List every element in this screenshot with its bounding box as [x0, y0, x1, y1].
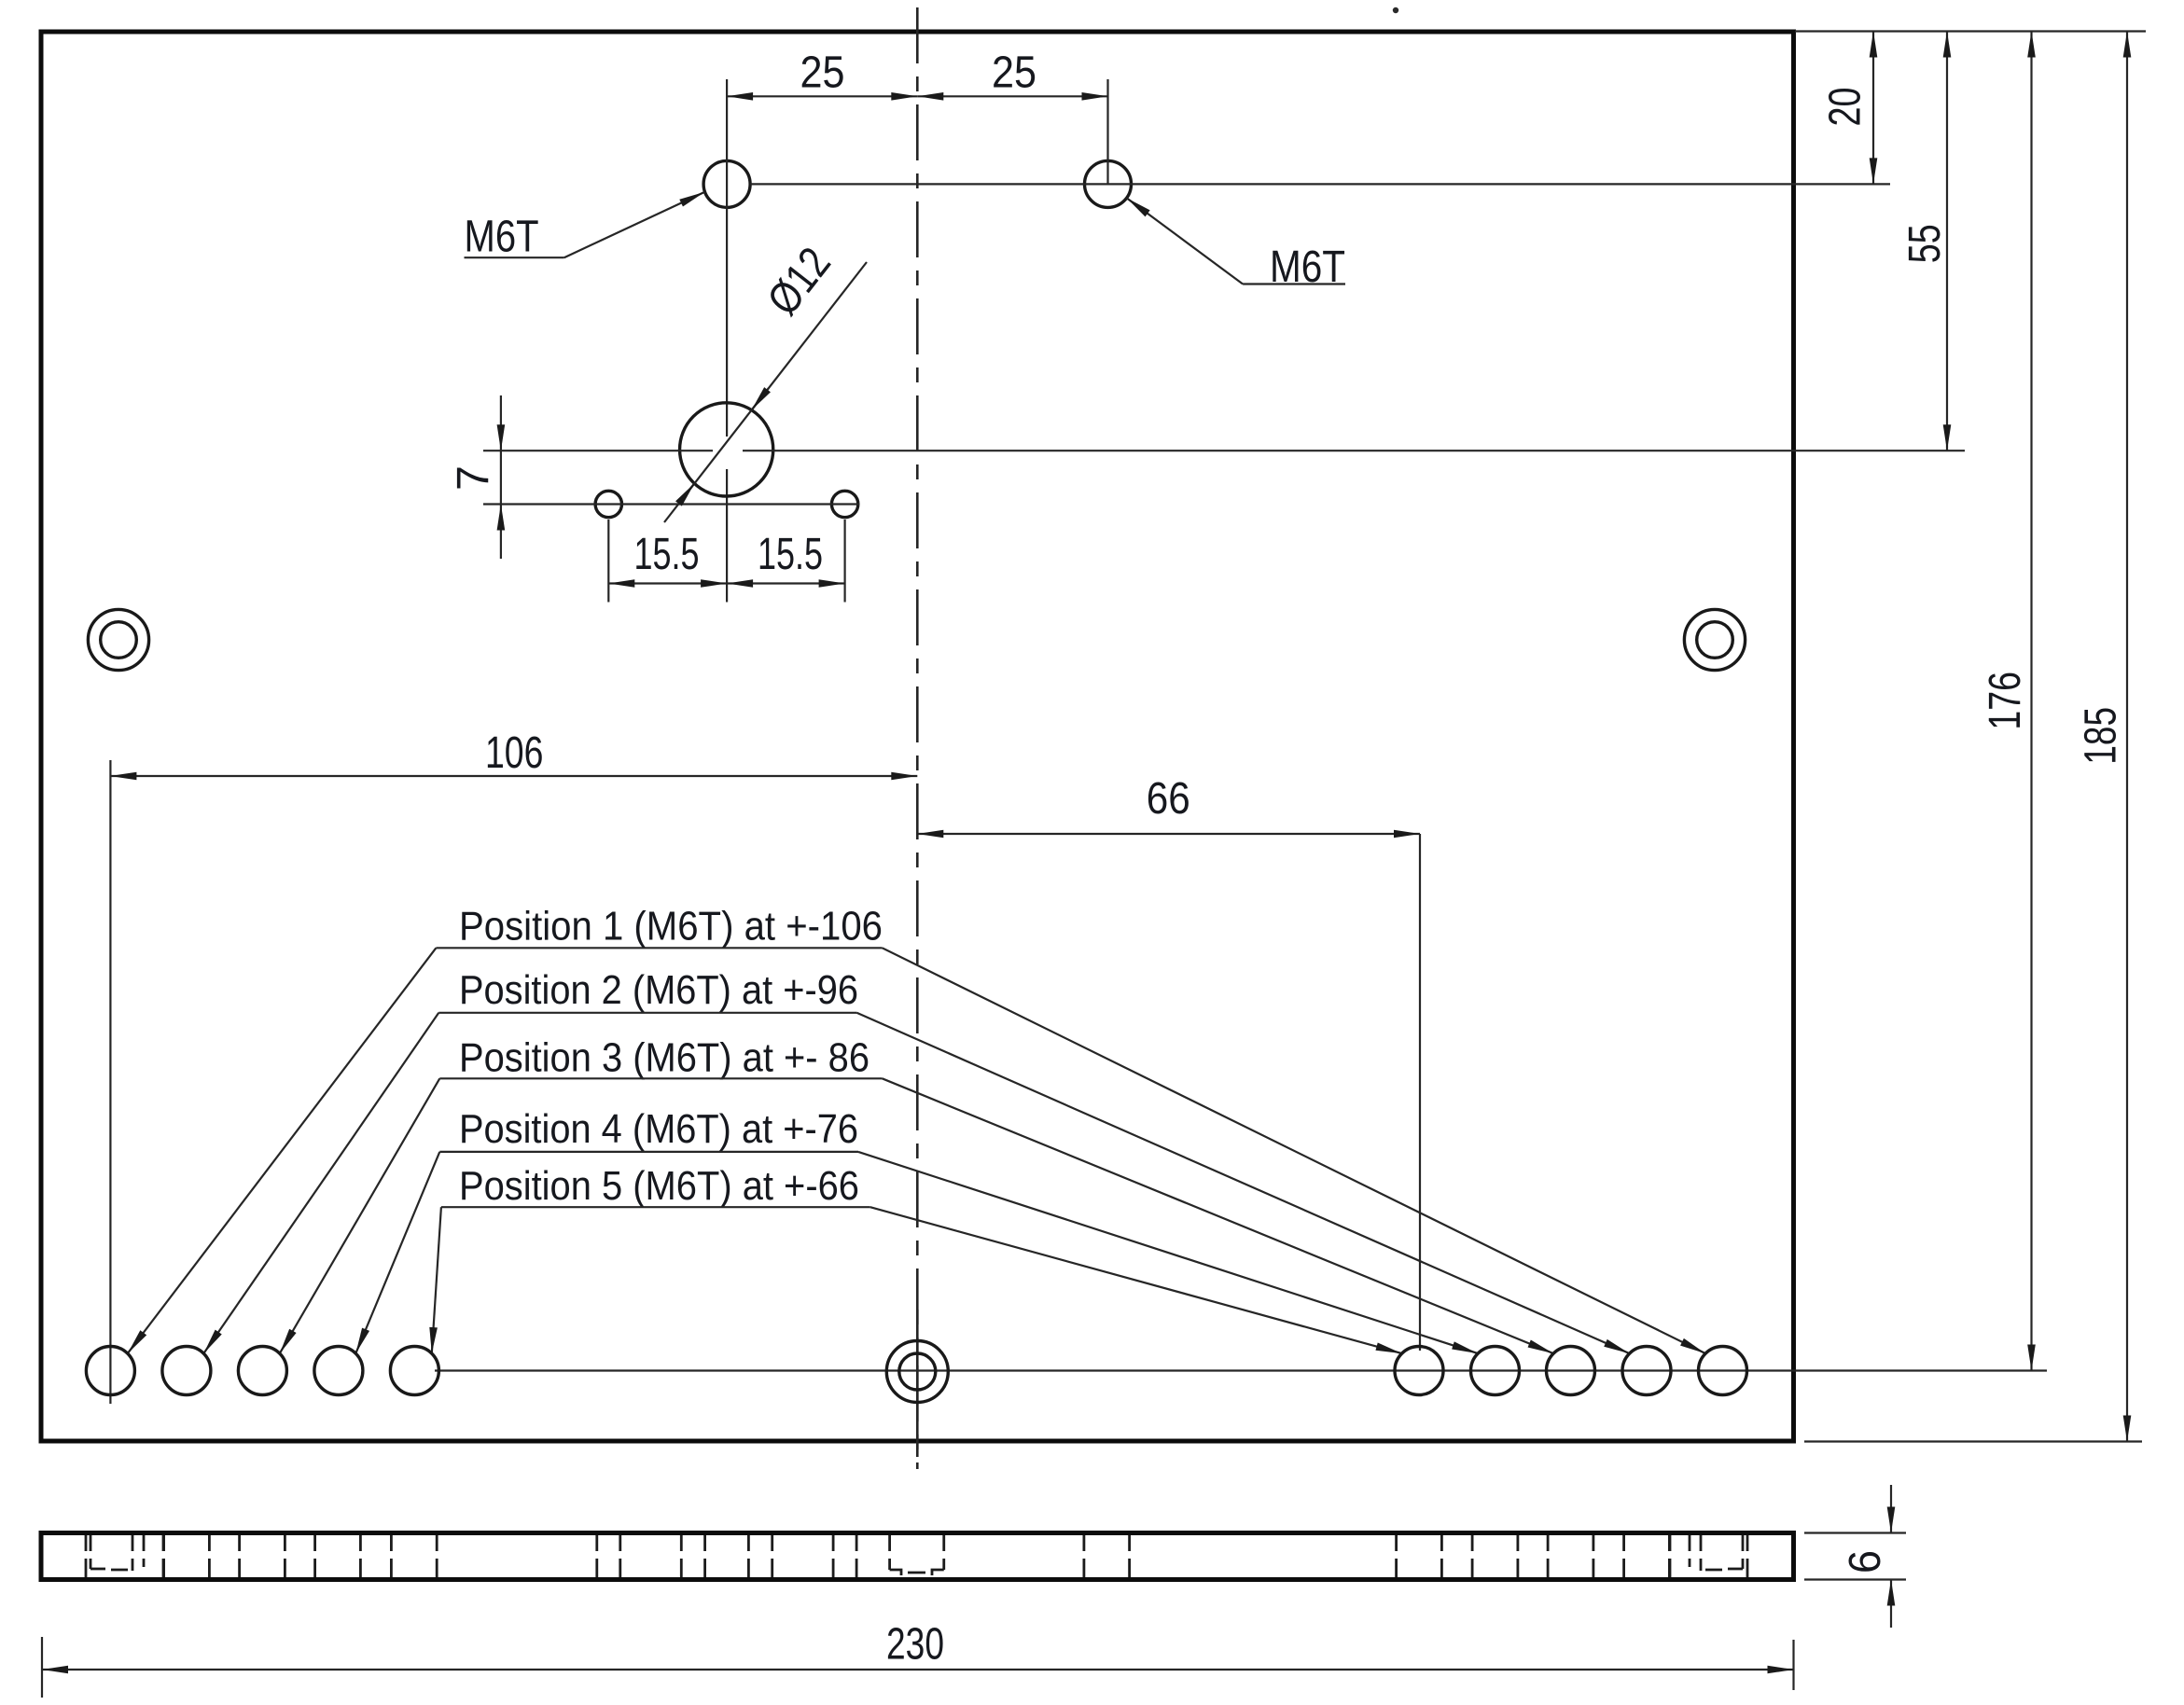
svg-text:25: 25 [800, 49, 845, 98]
svg-text:Position 4 (M6T) at +-76: Position 4 (M6T) at +-76 [459, 1106, 858, 1152]
svg-text:Position 1 (M6T) at +-106: Position 1 (M6T) at +-106 [459, 903, 883, 949]
svg-text:6: 6 [1841, 1550, 1890, 1573]
svg-text:Position 5 (M6T) at +-66: Position 5 (M6T) at +-66 [459, 1163, 859, 1209]
svg-text:66: 66 [1147, 774, 1190, 824]
svg-text:25: 25 [992, 49, 1036, 98]
svg-text:15.5: 15.5 [758, 530, 823, 579]
svg-text:185: 185 [2077, 707, 2126, 765]
svg-text:230: 230 [886, 1620, 944, 1670]
svg-text:Position 2 (M6T) at +-96: Position 2 (M6T) at +-96 [459, 967, 858, 1013]
svg-text:15.5: 15.5 [634, 530, 700, 579]
svg-text:7: 7 [449, 465, 498, 491]
svg-text:Position 3 (M6T) at +- 86: Position 3 (M6T) at +- 86 [459, 1034, 869, 1080]
svg-text:106: 106 [485, 728, 543, 778]
svg-text:176: 176 [1981, 672, 2030, 730]
svg-text:55: 55 [1900, 224, 1950, 263]
svg-text:M6T: M6T [465, 212, 539, 261]
svg-text:20: 20 [1821, 88, 1871, 127]
